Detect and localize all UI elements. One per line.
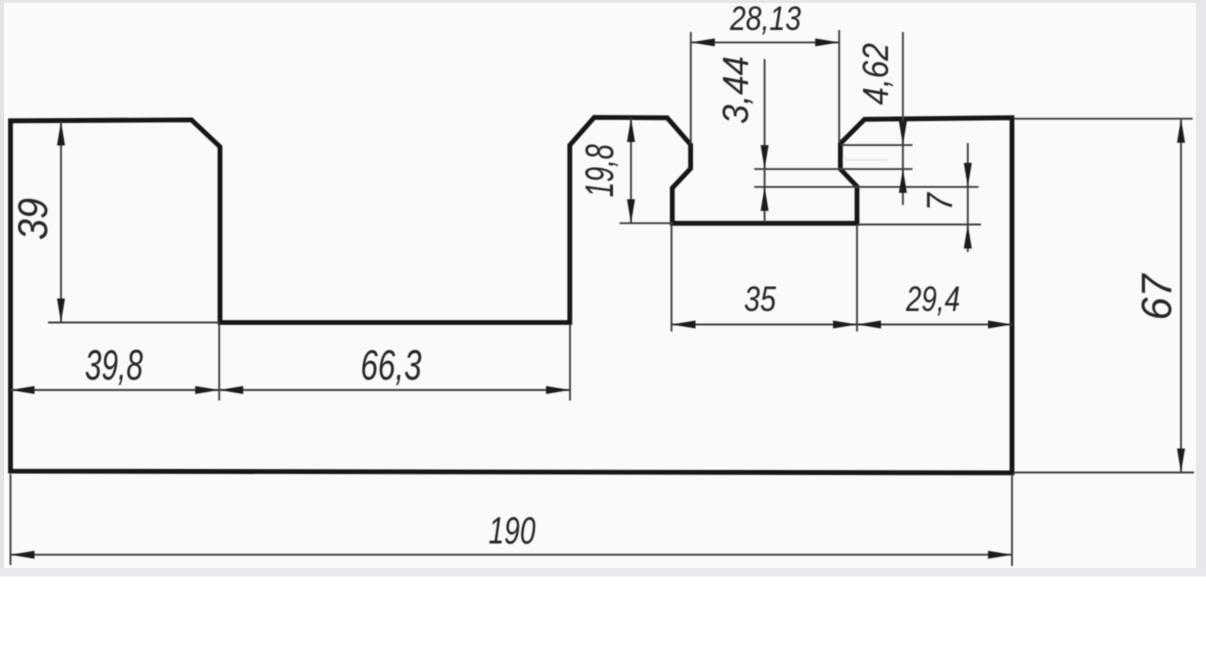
svg-text:35: 35 [744, 280, 776, 319]
arrow 35 left [672, 321, 696, 329]
extension line 67 bottom [1014, 472, 1194, 474]
extension line right bottom [1011, 474, 1013, 566]
dimension line 39 vertical [60, 122, 62, 323]
svg-text:67: 67 [1133, 272, 1181, 320]
extension line 19,8 bottom [620, 222, 673, 224]
arrow 39 down [57, 299, 65, 323]
arrow 4,62 up outside [899, 169, 907, 193]
scan border top [0, 0, 1206, 3]
arrow 4,62 down outside [899, 121, 907, 145]
scan border left [0, 0, 4, 572]
arrow 19,8 up [627, 118, 635, 142]
arrow 66,3 left [219, 386, 243, 394]
extension line 3,44 upper [754, 168, 912, 170]
svg-text:190: 190 [489, 511, 536, 553]
dimension line 7 [967, 143, 969, 252]
extension line 35 left [671, 225, 673, 332]
arrow 7 up outside [964, 225, 972, 249]
dimension line 39,8 and 66,3 [11, 389, 571, 391]
arrow 28,13 right [815, 38, 839, 46]
extension line at x=219 [218, 324, 220, 401]
svg-text:39,8: 39,8 [85, 342, 143, 390]
arrow 190 right [988, 551, 1012, 559]
extension line left bottom [10, 474, 12, 565]
dimension line 4,62 [902, 32, 904, 205]
arrow 28,13 left [691, 38, 715, 46]
ghost faint line [843, 159, 888, 161]
svg-text:39: 39 [9, 198, 56, 240]
svg-text:29,4: 29,4 [905, 280, 960, 319]
arrow 190 left [11, 551, 35, 559]
extension line 7 lower [858, 224, 981, 226]
arrow 39,8 right [195, 386, 219, 394]
extension line at x=570 [569, 325, 571, 401]
dimension line 28,13 [691, 41, 839, 43]
svg-text:66,3: 66,3 [361, 342, 422, 390]
arrow 67 up [1177, 119, 1185, 143]
part outline [11, 117, 1013, 473]
scan border right [1196, 0, 1206, 572]
svg-text:19,8: 19,8 [578, 144, 622, 198]
arrow 19,8 down [627, 199, 635, 223]
arrow 66,3 right [546, 386, 570, 394]
arrow 35 right [833, 321, 857, 329]
arrow 29,4 right [988, 321, 1012, 329]
extension line 28,13 left [690, 32, 692, 144]
extension line slot bottom left [48, 322, 219, 324]
arrow 39 up [57, 122, 65, 146]
svg-text:4,62: 4,62 [855, 43, 896, 105]
extension line 4,62 upper [841, 144, 913, 146]
svg-text:7: 7 [919, 191, 960, 211]
extension line 28,13 right [838, 30, 840, 143]
arrow 29,4 left [857, 321, 881, 329]
extension line 3,44 lower [754, 186, 978, 188]
arrow 3,44 down outside [761, 145, 769, 169]
arrow 7 down outside [964, 163, 972, 187]
arrow 39,8 left [11, 386, 35, 394]
dimension line 67 [1180, 119, 1182, 473]
svg-text:28,13: 28,13 [729, 0, 801, 38]
extension line 67 top [1014, 118, 1193, 120]
extension line 35 right [856, 225, 858, 332]
dimension line 19,8 [630, 118, 632, 223]
dimension line 190 [11, 554, 1013, 556]
scan border bottom [0, 568, 1206, 577]
arrow 67 down [1177, 449, 1185, 473]
svg-text:3,44: 3,44 [715, 56, 756, 124]
dimension line 35 and 29,4 [672, 324, 1013, 326]
dimension line 3,44 [764, 59, 766, 222]
arrow 3,44 up outside [761, 187, 769, 211]
